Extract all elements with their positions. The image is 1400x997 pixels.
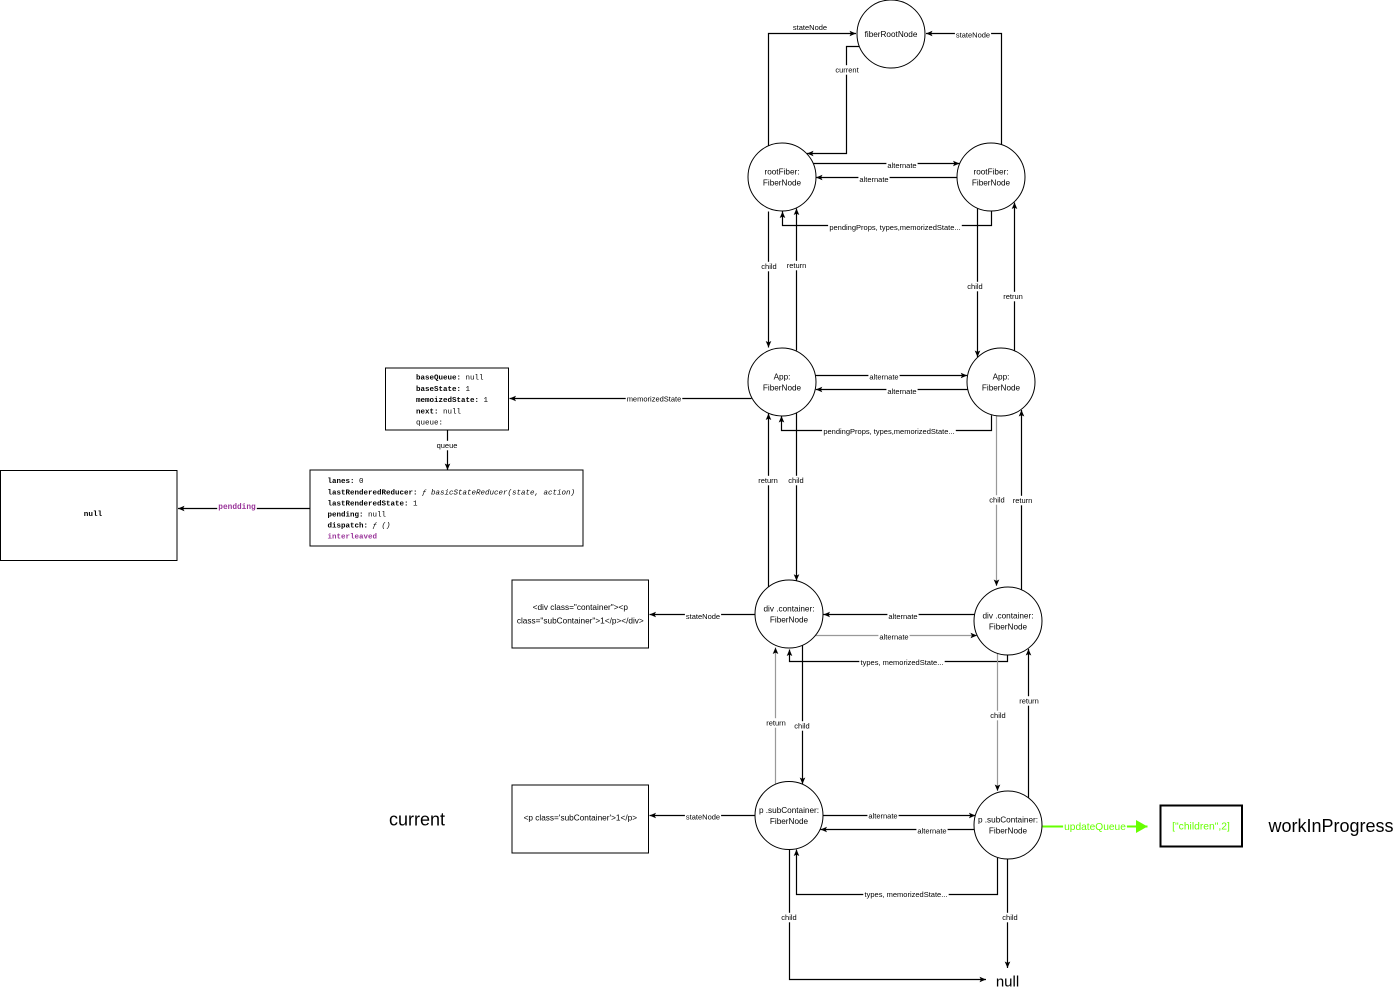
label updateQueue (1063, 822, 1127, 834)
label alternate-row4-bottom (878, 632, 909, 642)
label current (834, 65, 860, 75)
label alternate-row4-top (887, 612, 918, 622)
box children-green (1161, 806, 1243, 847)
wire alternate-row3-bottom (816, 389, 968, 391)
label alternate-row3-top (868, 372, 899, 382)
node p-subContainer-left (755, 782, 823, 850)
wire updateQueue-arrow (1043, 826, 1148, 828)
svg-text:pendingProps, types,memorizedS: pendingProps, types,memorizedState... (829, 223, 960, 232)
label alternate-row3-bottom (886, 387, 917, 397)
wire child-rows45-right (997, 653, 999, 791)
svg-text:memorizedState: memorizedState (627, 394, 682, 403)
label alternate-row5-bottom (916, 826, 947, 836)
label stateNode-left (793, 23, 827, 32)
label alternate-row2-top (886, 161, 917, 171)
svg-text:alternate: alternate (888, 612, 917, 621)
svg-text:p .subContainer:: p .subContainer: (759, 806, 819, 815)
svg-text:<p class='subContainer'>1</p>: <p class='subContainer'>1</p> (524, 814, 638, 823)
node fiberRootNode (857, 0, 925, 68)
wire alternate-row5-top (823, 815, 975, 817)
svg-text:stateNode: stateNode (686, 612, 720, 621)
svg-text:FiberNode: FiberNode (989, 622, 1028, 631)
wire child-bottom-right (1007, 859, 1009, 968)
label stateNode-row4 (685, 612, 721, 622)
label alternate-row2-bottom (858, 175, 889, 185)
svg-text:stateNode: stateNode (956, 31, 990, 40)
wire child-rows23-left (768, 212, 770, 348)
node App-right (967, 348, 1035, 416)
wire queue-arrow (447, 430, 449, 470)
wire pendding-arrow (178, 508, 310, 510)
svg-text:updateQueue: updateQueue (1064, 822, 1126, 833)
node p-subContainer-right (974, 791, 1042, 859)
node rootFiber-right (957, 143, 1025, 211)
svg-text:stateNode: stateNode (793, 23, 827, 32)
svg-text:return: return (787, 261, 807, 270)
svg-text:alternate: alternate (859, 175, 888, 184)
wire child-rows34-right (996, 416, 998, 586)
wire return-rows45-left (775, 648, 777, 785)
label alternate-row5-top (867, 811, 898, 821)
label memorizedState (626, 394, 683, 404)
label pendingProps-row3 (822, 427, 956, 437)
wire return-rows45-right (1028, 649, 1030, 798)
svg-text:stateNode: stateNode (686, 813, 720, 822)
svg-text:<div class="container"><p: <div class="container"><p (533, 603, 629, 612)
wire pendingProps-row3 (782, 415, 992, 430)
label child-rows34-right (988, 495, 1006, 505)
svg-text:div .container:: div .container: (764, 605, 815, 614)
box div-html (512, 580, 649, 648)
label pendding (217, 503, 257, 513)
label queue (436, 441, 459, 451)
svg-text:FiberNode: FiberNode (982, 383, 1021, 392)
svg-text:FiberNode: FiberNode (763, 178, 802, 187)
svg-text:retrun: retrun (1003, 292, 1023, 301)
wire alternate-row2-bottom (816, 177, 957, 179)
wire stateNode-left-elbow (769, 34, 857, 147)
label return-rows34-right (1012, 496, 1034, 506)
box hook-queue (310, 470, 583, 546)
wire alternate-row3-top (815, 375, 967, 377)
wire retrun-rows23-right (1014, 203, 1016, 351)
box memoizedState-queue (386, 368, 509, 430)
svg-text:p .subContainer:: p .subContainer: (978, 816, 1038, 825)
svg-text:return: return (1019, 697, 1039, 706)
svg-text:return: return (766, 719, 786, 728)
svg-text:App:: App: (774, 373, 791, 382)
box p-html (512, 785, 649, 853)
svg-text:pendding: pendding (218, 504, 256, 512)
label types-row5 (863, 890, 948, 900)
svg-text:null: null (84, 511, 103, 519)
wire types-row4 (790, 650, 1008, 662)
wire alternate-row4-bottom (816, 635, 977, 637)
svg-text:return: return (1013, 496, 1033, 505)
svg-text:child: child (794, 722, 809, 731)
label current-big (389, 810, 445, 830)
label child-rows23-left (760, 262, 778, 272)
wire pendingProps-row2 (783, 211, 992, 226)
node div-container-right (974, 587, 1042, 655)
label child-rows34-left (787, 476, 805, 486)
label child-rows23-right (966, 282, 984, 292)
svg-text:rootFiber:: rootFiber: (973, 168, 1008, 177)
svg-text:pendingProps, types,memorizedS: pendingProps, types,memorizedState... (823, 427, 954, 436)
wire stateNode-row4 (650, 614, 755, 616)
svg-text:App:: App: (993, 373, 1010, 382)
svg-text:null: null (996, 974, 1019, 991)
wire child-rows34-left (796, 413, 798, 581)
label child-bottom-right (1001, 913, 1019, 923)
svg-text:["children",2]: ["children",2] (1172, 822, 1230, 833)
svg-text:FiberNode: FiberNode (770, 817, 809, 826)
wire child-rows23-right (977, 208, 979, 357)
label workInProgress-big (1267, 816, 1393, 836)
wire alternate-row2-top (813, 163, 960, 165)
node App-left (748, 348, 816, 416)
label return-rows45-left (765, 718, 787, 728)
label stateNode-row5 (685, 812, 721, 822)
wire return-rows34-left (768, 414, 770, 588)
svg-text:child: child (989, 496, 1004, 505)
svg-text:return: return (758, 476, 778, 485)
label retrun-rows23-right (1002, 292, 1024, 302)
label types-row4 (859, 658, 944, 668)
svg-text:fiberRootNode: fiberRootNode (865, 30, 918, 39)
svg-text:child: child (967, 282, 982, 291)
label return-rows45-right (1018, 696, 1040, 706)
label null-bottom (996, 974, 1019, 991)
svg-text:alternate: alternate (869, 373, 898, 382)
svg-text:child: child (1002, 913, 1017, 922)
wire types-row5 (797, 850, 998, 895)
label return-rows34-left (757, 476, 779, 486)
node div-container-left (755, 580, 823, 648)
svg-text:current: current (389, 810, 445, 830)
svg-text:child: child (788, 476, 803, 485)
svg-text:class="subContainer">1</p></di: class="subContainer">1</p></div> (517, 616, 644, 625)
svg-text:FiberNode: FiberNode (989, 826, 1028, 835)
label child-bottom-left (780, 913, 798, 923)
wire child-rows45-left (802, 645, 804, 784)
svg-text:alternate: alternate (868, 812, 897, 821)
svg-text:workInProgress: workInProgress (1267, 816, 1393, 836)
svg-text:FiberNode: FiberNode (770, 615, 809, 624)
svg-text:child: child (990, 711, 1005, 720)
svg-text:FiberNode: FiberNode (763, 383, 802, 392)
wire stateNode-right-elbow (926, 34, 1002, 145)
svg-text:types, memorizedState...: types, memorizedState... (865, 890, 948, 899)
label stateNode-right (955, 30, 991, 40)
svg-text:alternate: alternate (879, 633, 908, 642)
svg-text:alternate: alternate (887, 161, 916, 170)
label child-rows45-right (989, 711, 1007, 721)
box null (1, 471, 178, 561)
wire current-elbow (807, 47, 859, 154)
label pendingProps-row2 (828, 223, 962, 233)
svg-text:child: child (781, 913, 796, 922)
svg-text:child: child (761, 262, 776, 271)
wire memorizedState-line (510, 398, 752, 400)
svg-text:div .container:: div .container: (983, 612, 1034, 621)
svg-text:queue: queue (437, 441, 458, 450)
svg-text:alternate: alternate (887, 387, 916, 396)
svg-text:current: current (835, 66, 859, 75)
label child-rows45-left (793, 721, 811, 731)
svg-text:FiberNode: FiberNode (972, 178, 1011, 187)
svg-text:alternate: alternate (917, 827, 946, 836)
svg-text:rootFiber:: rootFiber: (764, 168, 799, 177)
wire alternate-row4-top (824, 614, 975, 616)
node rootFiber-left (748, 143, 816, 211)
wire stateNode-row5 (650, 815, 755, 817)
svg-text:types, memorizedState...: types, memorizedState... (861, 658, 944, 667)
wire child-bottom-left (790, 850, 987, 980)
label return-rows23-left (786, 261, 808, 271)
wire return-rows34-right (1021, 410, 1023, 590)
wire alternate-row5-bottom (821, 829, 975, 831)
wire return-rows23-left (796, 209, 798, 351)
